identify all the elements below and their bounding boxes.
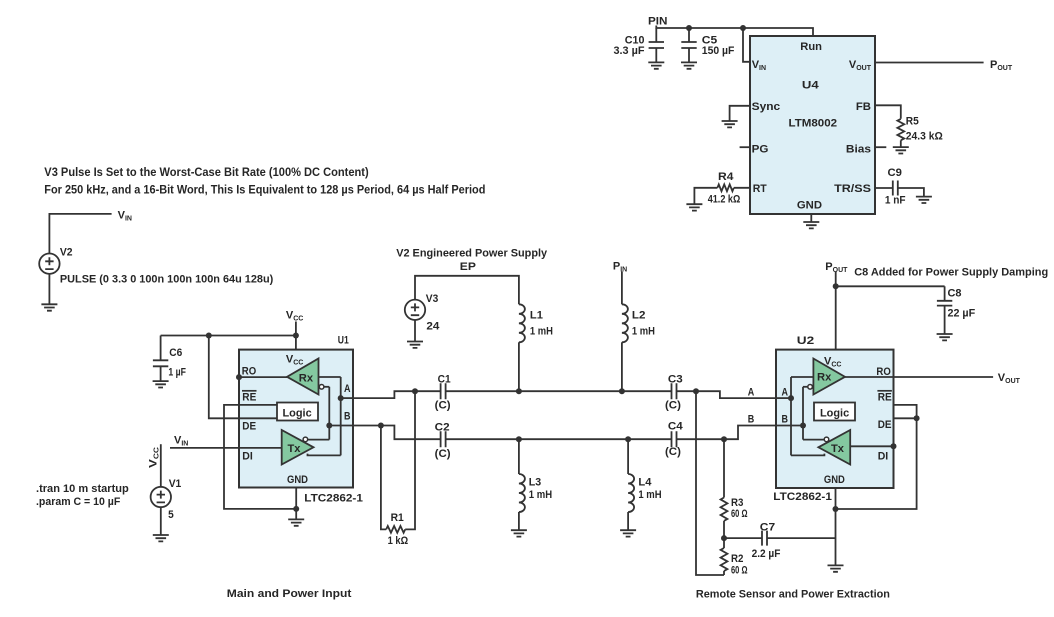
note .param (36, 496, 121, 508)
svg-text:FB: FB (856, 101, 871, 113)
wire V2 to VIN label (49, 214, 111, 254)
node VIN label DI (174, 435, 188, 448)
wire V1 to ground (160, 507, 162, 535)
svg-text:Tx: Tx (288, 443, 302, 455)
wire EP rail (415, 276, 519, 305)
svg-text:.tran 10 m startup: .tran 10 m startup (36, 483, 129, 495)
wire A vertical U2 (790, 377, 792, 455)
ground C5 (681, 62, 697, 68)
wire B vertical (328, 387, 330, 440)
op-amp Tx U2 (818, 430, 850, 465)
label LTM8002 (789, 118, 838, 130)
ground C8 (937, 334, 953, 340)
junction POUT-C8 (833, 283, 839, 289)
svg-text:V1: V1 (169, 478, 182, 490)
resistor R5 (897, 115, 943, 147)
svg-text:(C): (C) (435, 399, 451, 411)
label U1 (338, 335, 349, 347)
wire Tx output U2 (791, 454, 824, 456)
svg-text:C6: C6 (169, 347, 182, 359)
svg-text:1 nF: 1 nF (885, 194, 906, 206)
junction DI box edge (891, 443, 897, 449)
svg-text:1 mH: 1 mH (529, 489, 552, 501)
svg-text:R1: R1 (391, 512, 404, 524)
svg-text:C7: C7 (760, 522, 775, 534)
pin GND label U1 (287, 474, 308, 486)
svg-text:Rx: Rx (817, 372, 832, 384)
wire A in U2 (776, 397, 791, 399)
svg-text:DE: DE (878, 419, 892, 431)
svg-text:U1: U1 (338, 335, 349, 347)
ground R5 (893, 147, 909, 153)
pin VCC label U1 (286, 354, 303, 367)
label V2 (60, 247, 73, 259)
svg-text:1 mH: 1 mH (632, 326, 655, 338)
svg-text:Bias: Bias (846, 144, 871, 156)
pin RO label U1 (242, 366, 257, 378)
wire DE to VCC (209, 336, 277, 419)
svg-text:Logic: Logic (820, 408, 849, 420)
resistor R1 (381, 391, 415, 547)
svg-text:Run: Run (800, 41, 822, 53)
junction A-R1 (412, 388, 418, 394)
label U4 (802, 79, 820, 91)
wire B in U2 (776, 425, 803, 427)
wire DI U2 (850, 445, 893, 447)
ground V3 (407, 342, 423, 348)
capacitor C2 (435, 421, 451, 459)
pin DE label U2 (878, 419, 892, 431)
bubble Tx inverting output (303, 437, 329, 442)
op-amp U4 LTM8002 module body (750, 36, 875, 214)
svg-text:V3: V3 (426, 293, 439, 305)
capacitor C1 (435, 373, 451, 411)
svg-text:22 µF: 22 µF (948, 308, 976, 320)
svg-text:A: A (344, 383, 351, 395)
svg-text:R5: R5 (906, 115, 919, 127)
pin Sync label (752, 101, 781, 113)
svg-text:DI: DI (242, 451, 253, 463)
ground U1 GND (288, 519, 304, 525)
svg-text:A: A (782, 387, 789, 399)
junction RE-GND (293, 506, 299, 512)
svg-text:V2: V2 (60, 247, 73, 259)
node EP label (460, 261, 476, 273)
wire V3 to ground (414, 320, 416, 342)
pin VOUT label (849, 59, 872, 72)
svg-text:L4: L4 (638, 477, 652, 489)
ground C6 (153, 381, 169, 387)
junction VCC-DE (206, 333, 212, 339)
wire U4 GND pin (810, 214, 812, 222)
pin GND label U2 (824, 474, 845, 486)
svg-text:C9: C9 (888, 167, 902, 179)
junction A-L2 (619, 388, 625, 394)
pin B label U2 outside (748, 413, 755, 425)
node VCC label (286, 310, 303, 323)
capacitor C10 (614, 28, 665, 62)
svg-text:For 250 kHz, and a 16-Bit Word: For 250 kHz, and a 16-Bit Word, This Is … (44, 184, 485, 196)
junction B U2 (800, 423, 806, 429)
capacitor C6 (153, 336, 186, 382)
junction B-L4 (625, 436, 631, 442)
resistor R4 (694, 171, 750, 205)
node PIN net label (648, 16, 668, 28)
bubble Rx inverting input (319, 385, 329, 390)
wire VOUT to POUT (875, 62, 984, 64)
pin VCC label U2 (824, 356, 841, 369)
svg-text:C1: C1 (438, 373, 451, 385)
pin RE label U1 (242, 391, 257, 404)
svg-text:60 Ω: 60 Ω (731, 565, 748, 577)
svg-text:60 Ω: 60 Ω (731, 508, 748, 520)
wire POUT to U2 VCC (835, 272, 837, 350)
wire DE U2 (894, 417, 917, 419)
label LTC2862-1 U2 (773, 491, 832, 503)
junction B-L3 (516, 436, 522, 442)
pin Run label (800, 41, 822, 53)
wire FB to R5 (875, 105, 901, 119)
pin A label U2 outside (748, 387, 755, 399)
svg-text:GND: GND (797, 200, 822, 212)
ground R4 (686, 204, 702, 210)
svg-text:24: 24 (426, 321, 440, 333)
svg-text:Sync: Sync (752, 101, 781, 113)
capacitor C4 (665, 421, 684, 458)
svg-text:RO: RO (242, 366, 257, 378)
svg-text:L1: L1 (530, 310, 543, 322)
wire RO to VOUT (845, 376, 993, 378)
junction B-R3 (721, 436, 727, 442)
svg-text:.param C = 10 µF: .param C = 10 µF (36, 496, 121, 508)
junction B-R1 branch (378, 423, 384, 429)
node PIN label mid (613, 261, 627, 274)
logic box U1 (277, 403, 318, 421)
svg-text:C4: C4 (668, 421, 684, 433)
label 5 (168, 509, 174, 521)
transceiver U2 LTC2862-1 body (776, 350, 894, 488)
wire PIN rail to Run (656, 26, 813, 37)
svg-text:TR/SS: TR/SS (834, 183, 871, 195)
svg-text:L2: L2 (632, 310, 646, 322)
svg-text:Main and Power Input: Main and Power Input (227, 588, 352, 600)
source V2 (39, 254, 59, 274)
svg-text:RT: RT (753, 183, 767, 195)
label U2 (797, 335, 814, 347)
svg-text:5: 5 (168, 509, 174, 521)
svg-text:24.3 kΩ: 24.3 kΩ (906, 131, 943, 143)
junction A U2 (788, 395, 794, 401)
svg-text:R2: R2 (731, 553, 743, 565)
svg-text:41.2 kΩ: 41.2 kΩ (708, 193, 741, 205)
node Vcc label rotated (148, 447, 161, 468)
capacitor C8 (937, 286, 976, 334)
svg-text:LTC2862-1: LTC2862-1 (304, 493, 363, 505)
note line 2 (44, 184, 485, 196)
wire bus A (353, 391, 776, 398)
capacitor C7 (724, 522, 836, 561)
node POUT label right (825, 261, 848, 274)
svg-text:C8 Added for Power Supply Damp: C8 Added for Power Supply Damping (854, 267, 1048, 279)
label C8 damping note (854, 267, 1048, 279)
ground U2 GND (828, 565, 844, 571)
bubble Tx inverting U2 (803, 437, 829, 442)
svg-text:C8: C8 (948, 288, 962, 300)
svg-text:B: B (782, 413, 789, 425)
svg-text:150 µF: 150 µF (702, 45, 735, 57)
logic box U2 (814, 403, 855, 421)
wire B vertical U2 (802, 387, 804, 440)
inductor L4 (628, 439, 662, 530)
svg-text:(C): (C) (665, 399, 681, 411)
wire U1 GND pin (295, 488, 297, 520)
inductor L2 (622, 272, 655, 392)
wire V1 up (160, 444, 162, 487)
pin DE label U1 (242, 421, 256, 433)
junction R3-R2-C7 (721, 535, 727, 541)
resistor R3 (721, 439, 748, 538)
svg-text:DE: DE (242, 421, 256, 433)
svg-text:GND: GND (824, 474, 845, 486)
junction A-L1 (516, 388, 522, 394)
label PULSE params (60, 274, 274, 286)
pin Bias stub (875, 146, 886, 148)
pin GND label U4 (797, 200, 822, 212)
capacitor C3 (665, 373, 683, 411)
ground C10 (648, 62, 664, 68)
svg-text:PG: PG (752, 144, 769, 156)
pin PG stub (740, 146, 750, 148)
junction A-R2 branch (693, 388, 699, 394)
node VOUT label (998, 372, 1021, 385)
label LTC2862-1 U1 (304, 493, 363, 505)
pin RO label U2 (876, 366, 891, 378)
junction at VIN drop (740, 25, 746, 31)
ground V2 (41, 304, 57, 310)
wire A to R2 bottom (696, 391, 724, 575)
svg-text:1 kΩ: 1 kΩ (388, 535, 409, 547)
svg-text:GND: GND (287, 474, 308, 486)
svg-text:(C): (C) (665, 446, 681, 458)
op-amp Rx U1 (287, 359, 319, 395)
svg-text:DI: DI (878, 451, 889, 463)
pin B label U2 inside (782, 413, 789, 425)
label V2 Engineered Power Supply (396, 248, 548, 260)
svg-text:Logic: Logic (283, 408, 312, 420)
svg-text:B: B (748, 413, 755, 425)
wire U2 GND pin (835, 488, 837, 565)
svg-text:RE: RE (878, 391, 892, 403)
junction A U1 (338, 395, 344, 401)
pin RT label (753, 183, 767, 195)
junction at C5 (686, 25, 692, 31)
op-amp Rx U2 (813, 359, 845, 395)
svg-text:2.2 µF: 2.2 µF (752, 548, 781, 560)
ground U4 GND (803, 222, 819, 228)
wire A out U1 (341, 397, 353, 399)
pin Bias label (846, 144, 871, 156)
svg-text:V3 Pulse Is Set to the Worst-C: V3 Pulse Is Set to the Worst-Case Bit Ra… (44, 167, 369, 179)
label V3 (426, 293, 439, 305)
svg-text:LTC2862-1: LTC2862-1 (773, 491, 832, 503)
svg-text:U2: U2 (797, 335, 814, 347)
op-amp Tx U1 (282, 430, 314, 465)
wire Sync to ground (730, 106, 750, 121)
wire B out U1 (329, 425, 353, 427)
pin FB label (856, 101, 871, 113)
junction B U1 (326, 423, 332, 429)
caption Remote Sensor and Power Extraction (696, 589, 890, 601)
wire DI input (170, 447, 282, 449)
node POUT label top (990, 59, 1013, 72)
ground V1 (153, 535, 169, 541)
svg-text:V2 Engineered Power Supply: V2 Engineered Power Supply (396, 248, 548, 260)
svg-text:Tx: Tx (831, 443, 845, 455)
svg-text:PIN: PIN (648, 16, 668, 28)
pin B label U1 (344, 411, 351, 423)
junction RO box edge (236, 374, 242, 380)
wire POUT to C8 (836, 285, 945, 287)
svg-text:RO: RO (876, 366, 891, 378)
pin PG label (752, 144, 769, 156)
ground L4 (620, 530, 636, 536)
inductor L3 (519, 439, 552, 530)
svg-text:C3: C3 (668, 373, 683, 385)
source V1 (151, 487, 171, 507)
ground Sync (722, 121, 738, 127)
svg-text:Rx: Rx (299, 373, 314, 385)
wire A vertical (340, 377, 342, 455)
wire Rx input U2 (791, 376, 813, 378)
wire VCC rail U1 (161, 322, 296, 350)
svg-text:U4: U4 (802, 79, 820, 91)
wire Rx input from A (319, 376, 341, 378)
svg-text:L3: L3 (529, 477, 541, 489)
label V1 (169, 478, 182, 490)
capacitor C5 (681, 28, 734, 62)
svg-text:EP: EP (460, 261, 476, 273)
junction GND loop U2 (833, 506, 839, 512)
pin A label U1 (344, 383, 351, 395)
svg-text:B: B (344, 411, 351, 423)
svg-text:C2: C2 (435, 421, 450, 433)
svg-text:Remote Sensor and Power Extrac: Remote Sensor and Power Extraction (696, 589, 890, 601)
pin A label U2 inside (782, 387, 789, 399)
inductor L1 (519, 304, 553, 391)
capacitor C9 (875, 167, 924, 206)
svg-text:R4: R4 (718, 171, 734, 183)
note .tran (36, 483, 129, 495)
junction VCC-U1 (293, 333, 299, 339)
wire V2 to ground (48, 274, 50, 304)
pin TR/SS label (834, 183, 871, 195)
svg-text:LTM8002: LTM8002 (789, 118, 838, 130)
pin RE label U2 (877, 391, 892, 404)
transceiver U1 LTC2862-1 body (239, 350, 353, 488)
label 24 (426, 321, 440, 333)
pin DI label U1 (242, 451, 253, 463)
svg-text:3.3 µF: 3.3 µF (614, 45, 645, 57)
junction DE loop (914, 415, 920, 421)
note line 1 (44, 167, 369, 179)
svg-text:(C): (C) (435, 448, 451, 460)
wire bus B (353, 426, 776, 440)
pin DI label U2 (878, 451, 889, 463)
wire RE loop U2 (836, 405, 917, 509)
wire Tx output to A (308, 454, 341, 456)
source V3 (405, 300, 425, 320)
svg-text:1 µF: 1 µF (168, 367, 186, 379)
node VIN net label left (118, 210, 132, 223)
svg-text:PULSE (0 3.3 0 100n 100n 100n: PULSE (0 3.3 0 100n 100n 100n 64u 128u) (60, 274, 274, 286)
caption Main and Power Input (227, 588, 352, 600)
svg-text:RE: RE (242, 391, 256, 403)
pin VIN label (752, 59, 766, 72)
ground L3 (511, 530, 527, 536)
wire RO (239, 376, 287, 378)
resistor R2 (721, 538, 748, 576)
bubble Rx inverting U2 (803, 385, 812, 390)
svg-text:A: A (748, 387, 755, 399)
wire RE to GND loop (224, 405, 296, 509)
svg-text:1 mH: 1 mH (638, 489, 661, 501)
svg-text:1 mH: 1 mH (530, 326, 553, 338)
ground C9 (916, 197, 932, 203)
wire to VIN pin (743, 28, 750, 62)
